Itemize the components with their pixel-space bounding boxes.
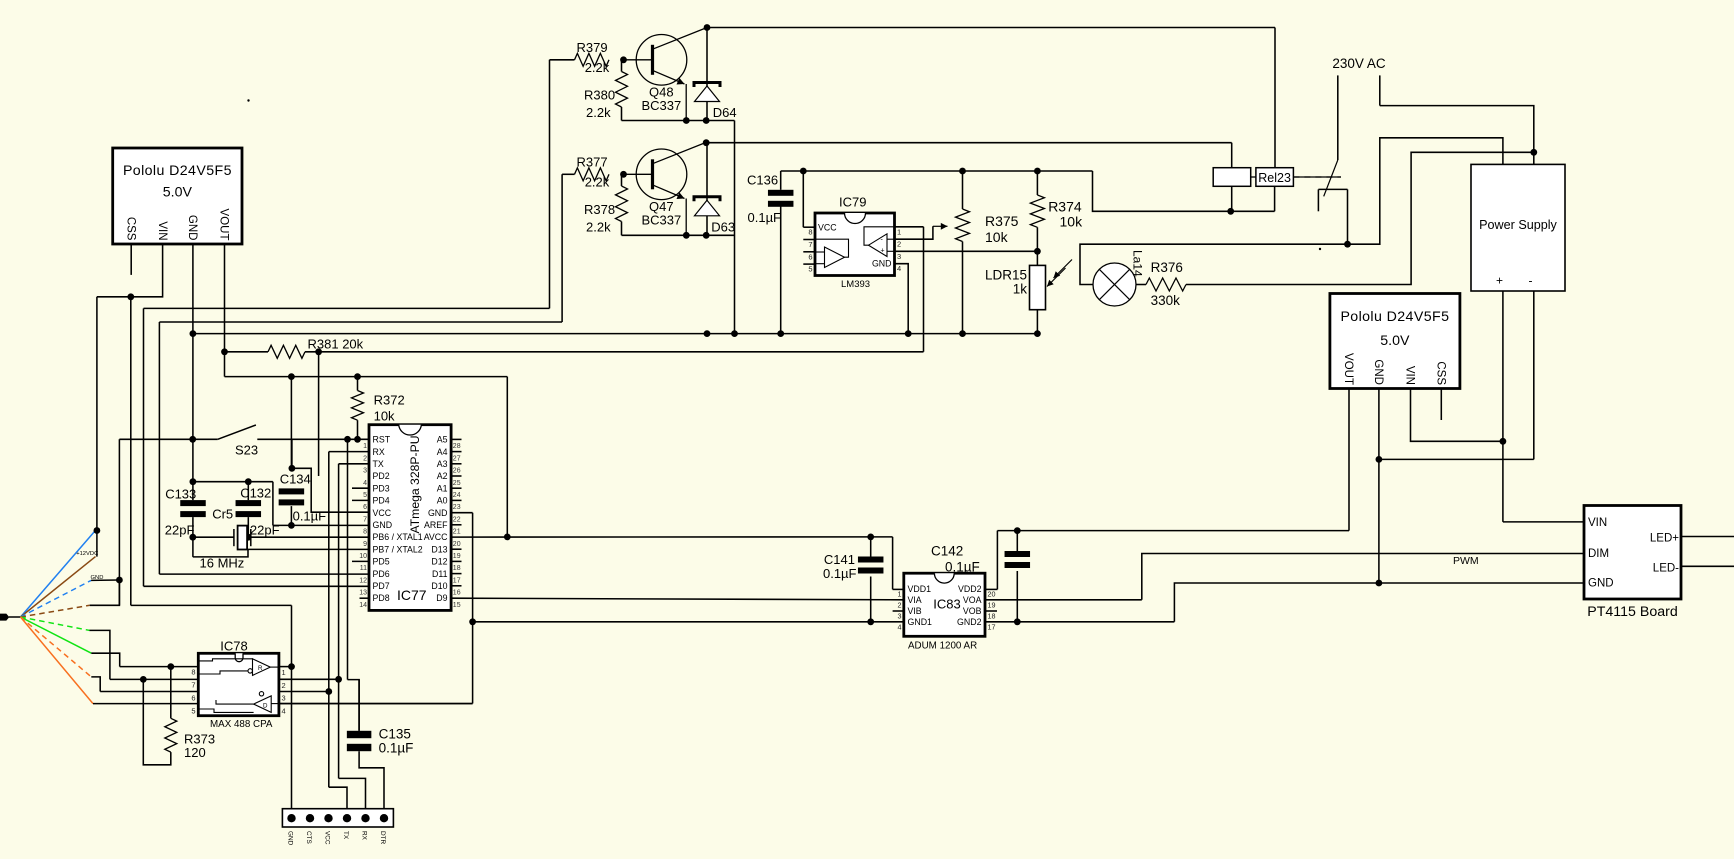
svg-text:Pololu D24V5F5: Pololu D24V5F5 [1340, 309, 1449, 325]
svg-text:PT4115 Board: PT4115 Board [1587, 604, 1677, 620]
svg-text:R380: R380 [584, 88, 615, 103]
svg-text:LDR15: LDR15 [985, 268, 1027, 283]
svg-text:5.0V: 5.0V [163, 185, 193, 201]
svg-text:25: 25 [453, 480, 461, 487]
svg-text:6: 6 [808, 252, 812, 261]
svg-text:VIN: VIN [156, 221, 168, 240]
svg-text:GND: GND [872, 259, 892, 269]
svg-text:PD3: PD3 [373, 483, 390, 493]
svg-text:R379: R379 [577, 40, 608, 55]
svg-text:PD4: PD4 [373, 496, 390, 506]
svg-text:PD6: PD6 [373, 569, 390, 579]
svg-text:17: 17 [453, 577, 461, 584]
svg-text:4: 4 [897, 264, 901, 273]
svg-text:VOUT: VOUT [1342, 353, 1354, 385]
svg-text:C133: C133 [165, 486, 196, 501]
svg-text:R376: R376 [1151, 260, 1183, 275]
svg-text:DTR: DTR [379, 831, 386, 845]
svg-text:BC337: BC337 [642, 213, 682, 228]
svg-text:-: - [1529, 274, 1533, 288]
svg-text:VIN: VIN [1404, 366, 1416, 385]
svg-text:GND: GND [428, 508, 448, 518]
svg-text:D12: D12 [431, 557, 447, 567]
svg-text:VCC: VCC [373, 508, 392, 518]
svg-text:13: 13 [359, 590, 367, 597]
svg-text:PD2: PD2 [373, 471, 390, 481]
svg-text:10k: 10k [1060, 214, 1084, 230]
svg-text:7: 7 [363, 516, 367, 523]
svg-text:4: 4 [363, 480, 367, 487]
svg-text:14: 14 [359, 602, 367, 609]
svg-text:230V AC: 230V AC [1332, 56, 1386, 71]
svg-text:VOA: VOA [963, 595, 982, 605]
svg-text:5: 5 [191, 706, 195, 715]
svg-text:AREF: AREF [424, 520, 448, 530]
svg-text:PD7: PD7 [373, 581, 390, 591]
svg-text:C142: C142 [931, 544, 963, 559]
svg-text:IC79: IC79 [839, 195, 866, 210]
svg-text:VDD1: VDD1 [908, 584, 932, 594]
svg-text:26: 26 [453, 468, 461, 475]
svg-text:0.1µF: 0.1µF [379, 741, 414, 756]
svg-text:C135: C135 [379, 727, 411, 742]
svg-text:C141: C141 [824, 552, 855, 567]
svg-text:VIA: VIA [908, 595, 922, 605]
svg-text:R375: R375 [985, 213, 1019, 229]
svg-text:2.2k: 2.2k [585, 174, 610, 189]
svg-text:28: 28 [453, 443, 461, 450]
svg-text:2: 2 [363, 455, 367, 462]
svg-text:GND: GND [373, 520, 393, 530]
svg-text:5: 5 [363, 492, 367, 499]
svg-text:1: 1 [282, 668, 286, 677]
svg-text:PB7 / XTAL2: PB7 / XTAL2 [373, 544, 423, 554]
svg-text:2: 2 [898, 601, 902, 610]
svg-text:23: 23 [453, 504, 461, 511]
svg-text:DIM: DIM [1588, 548, 1609, 560]
svg-text:4: 4 [898, 622, 902, 631]
svg-text:7: 7 [191, 681, 195, 690]
svg-text:2: 2 [897, 240, 901, 249]
svg-text:GND2: GND2 [957, 617, 982, 627]
svg-text:A4: A4 [437, 447, 448, 457]
svg-text:GND: GND [186, 215, 198, 241]
svg-text:PD8: PD8 [373, 593, 390, 603]
svg-text:2.2k: 2.2k [585, 60, 610, 75]
svg-text:VDD2: VDD2 [958, 584, 982, 594]
svg-text:16: 16 [453, 590, 461, 597]
svg-text:GND: GND [286, 831, 293, 846]
svg-text:D: D [263, 703, 268, 710]
svg-text:VOB: VOB [963, 606, 982, 616]
svg-text:A3: A3 [437, 459, 448, 469]
svg-text:IC83: IC83 [933, 597, 960, 612]
svg-text:8: 8 [808, 228, 812, 237]
svg-text:PD5: PD5 [373, 557, 390, 567]
svg-text:2.2k: 2.2k [586, 105, 611, 120]
svg-text:1: 1 [898, 590, 902, 599]
svg-text:8: 8 [191, 668, 195, 677]
svg-text:GND: GND [1372, 359, 1384, 385]
svg-text:D13: D13 [431, 544, 447, 554]
svg-text:LM393: LM393 [841, 279, 870, 290]
svg-text:20: 20 [988, 590, 996, 599]
svg-text:8: 8 [363, 529, 367, 536]
svg-text:RST: RST [373, 435, 391, 445]
svg-text:+: + [1496, 274, 1503, 288]
svg-text:RX: RX [360, 831, 367, 841]
svg-text:3: 3 [282, 694, 286, 703]
svg-text:11: 11 [360, 565, 367, 572]
svg-text:+12VDC: +12VDC [76, 551, 98, 557]
svg-text:10k: 10k [985, 229, 1009, 245]
svg-text:1: 1 [363, 443, 367, 450]
svg-text:120: 120 [184, 745, 206, 760]
svg-text:17: 17 [988, 622, 996, 631]
svg-text:15: 15 [453, 602, 461, 609]
svg-text:24: 24 [453, 492, 461, 499]
svg-text:12: 12 [359, 577, 367, 584]
svg-text:27: 27 [453, 455, 461, 462]
svg-text:20: 20 [453, 541, 461, 548]
svg-text:6: 6 [363, 504, 367, 511]
svg-text:2: 2 [282, 681, 286, 690]
svg-text:3: 3 [897, 252, 901, 261]
svg-text:D11: D11 [432, 569, 448, 579]
svg-text:22pF: 22pF [250, 523, 280, 538]
svg-text:PWM: PWM [1453, 555, 1479, 567]
svg-text:D9: D9 [436, 593, 447, 603]
svg-text:VIN: VIN [1588, 517, 1607, 529]
svg-text:6: 6 [191, 693, 195, 702]
svg-text:16 MHz: 16 MHz [200, 556, 245, 571]
svg-text:0.1µF: 0.1µF [748, 210, 782, 225]
svg-text:19: 19 [453, 553, 461, 560]
svg-text:A1: A1 [437, 483, 448, 493]
svg-text:CSS: CSS [124, 217, 136, 241]
svg-text:VCC: VCC [818, 223, 837, 233]
svg-text:Rel23: Rel23 [1258, 171, 1291, 185]
svg-text:A2: A2 [437, 471, 448, 481]
svg-text:ADUM 1200 AR: ADUM 1200 AR [908, 641, 977, 652]
svg-text:2.2k: 2.2k [586, 220, 611, 235]
svg-text:1k: 1k [1013, 282, 1028, 297]
svg-text:R: R [258, 665, 263, 672]
svg-text:+: + [881, 248, 885, 255]
svg-text:9: 9 [363, 541, 367, 548]
svg-text:C134: C134 [280, 472, 311, 487]
svg-text:R374: R374 [1048, 199, 1082, 215]
svg-text:0.1µF: 0.1µF [945, 560, 980, 575]
svg-text:330k: 330k [1151, 293, 1181, 308]
svg-text:A5: A5 [437, 435, 448, 445]
svg-text:CTS: CTS [305, 831, 312, 844]
svg-text:4: 4 [282, 706, 286, 715]
svg-text:VIB: VIB [908, 606, 922, 616]
svg-text:MAX 488 CPA: MAX 488 CPA [210, 719, 273, 730]
svg-text:Cr5: Cr5 [212, 507, 233, 522]
svg-text:D10: D10 [431, 581, 447, 591]
svg-text:A0: A0 [437, 496, 448, 506]
svg-text:10k: 10k [374, 409, 395, 424]
svg-text:22: 22 [453, 516, 461, 523]
svg-text:22pF: 22pF [165, 523, 195, 538]
svg-text:R378: R378 [584, 202, 615, 217]
svg-text:TX: TX [342, 831, 349, 840]
svg-text:GND1: GND1 [908, 617, 933, 627]
svg-text:Power Supply: Power Supply [1479, 218, 1557, 232]
svg-text:BC337: BC337 [642, 98, 682, 113]
svg-text:La14: La14 [1131, 250, 1145, 277]
svg-text:1: 1 [897, 227, 901, 236]
svg-text:3: 3 [898, 612, 902, 621]
svg-text:IC77: IC77 [397, 587, 427, 603]
svg-text:7: 7 [808, 240, 812, 249]
svg-text:D63: D63 [711, 220, 735, 235]
svg-text:R372: R372 [374, 393, 405, 408]
svg-text:0.1µF: 0.1µF [293, 508, 327, 523]
svg-text:AVCC: AVCC [424, 532, 448, 542]
svg-text:S23: S23 [235, 443, 258, 458]
svg-text:0.1µF: 0.1µF [823, 566, 857, 581]
svg-text:18: 18 [988, 612, 996, 621]
svg-text:Pololu D24V5F5: Pololu D24V5F5 [123, 163, 232, 179]
svg-text:IC78: IC78 [220, 639, 247, 654]
svg-text:R377: R377 [577, 155, 608, 170]
svg-text:CSS: CSS [1435, 361, 1447, 385]
svg-text:LED-: LED- [1653, 563, 1679, 575]
svg-text:C136: C136 [747, 173, 778, 188]
svg-text:18: 18 [453, 565, 461, 572]
svg-text:LED+: LED+ [1650, 533, 1679, 545]
svg-text:GND: GND [1588, 578, 1614, 590]
svg-text:5: 5 [808, 265, 812, 274]
svg-text:21: 21 [453, 529, 461, 536]
svg-text:ATmega 328P-PU: ATmega 328P-PU [408, 436, 422, 534]
svg-text:C132: C132 [240, 485, 271, 500]
svg-text:D64: D64 [713, 105, 737, 120]
svg-text:TX: TX [373, 459, 384, 469]
svg-text:RX: RX [373, 447, 385, 457]
svg-text:VCC: VCC [323, 831, 330, 845]
svg-text:R381 20k: R381 20k [308, 337, 364, 352]
svg-text:GND: GND [91, 575, 104, 581]
svg-text:19: 19 [988, 601, 996, 610]
svg-text:3: 3 [363, 468, 367, 475]
svg-text:VOUT: VOUT [218, 209, 230, 241]
svg-text:10: 10 [359, 553, 367, 560]
svg-text:5.0V: 5.0V [1380, 333, 1410, 349]
